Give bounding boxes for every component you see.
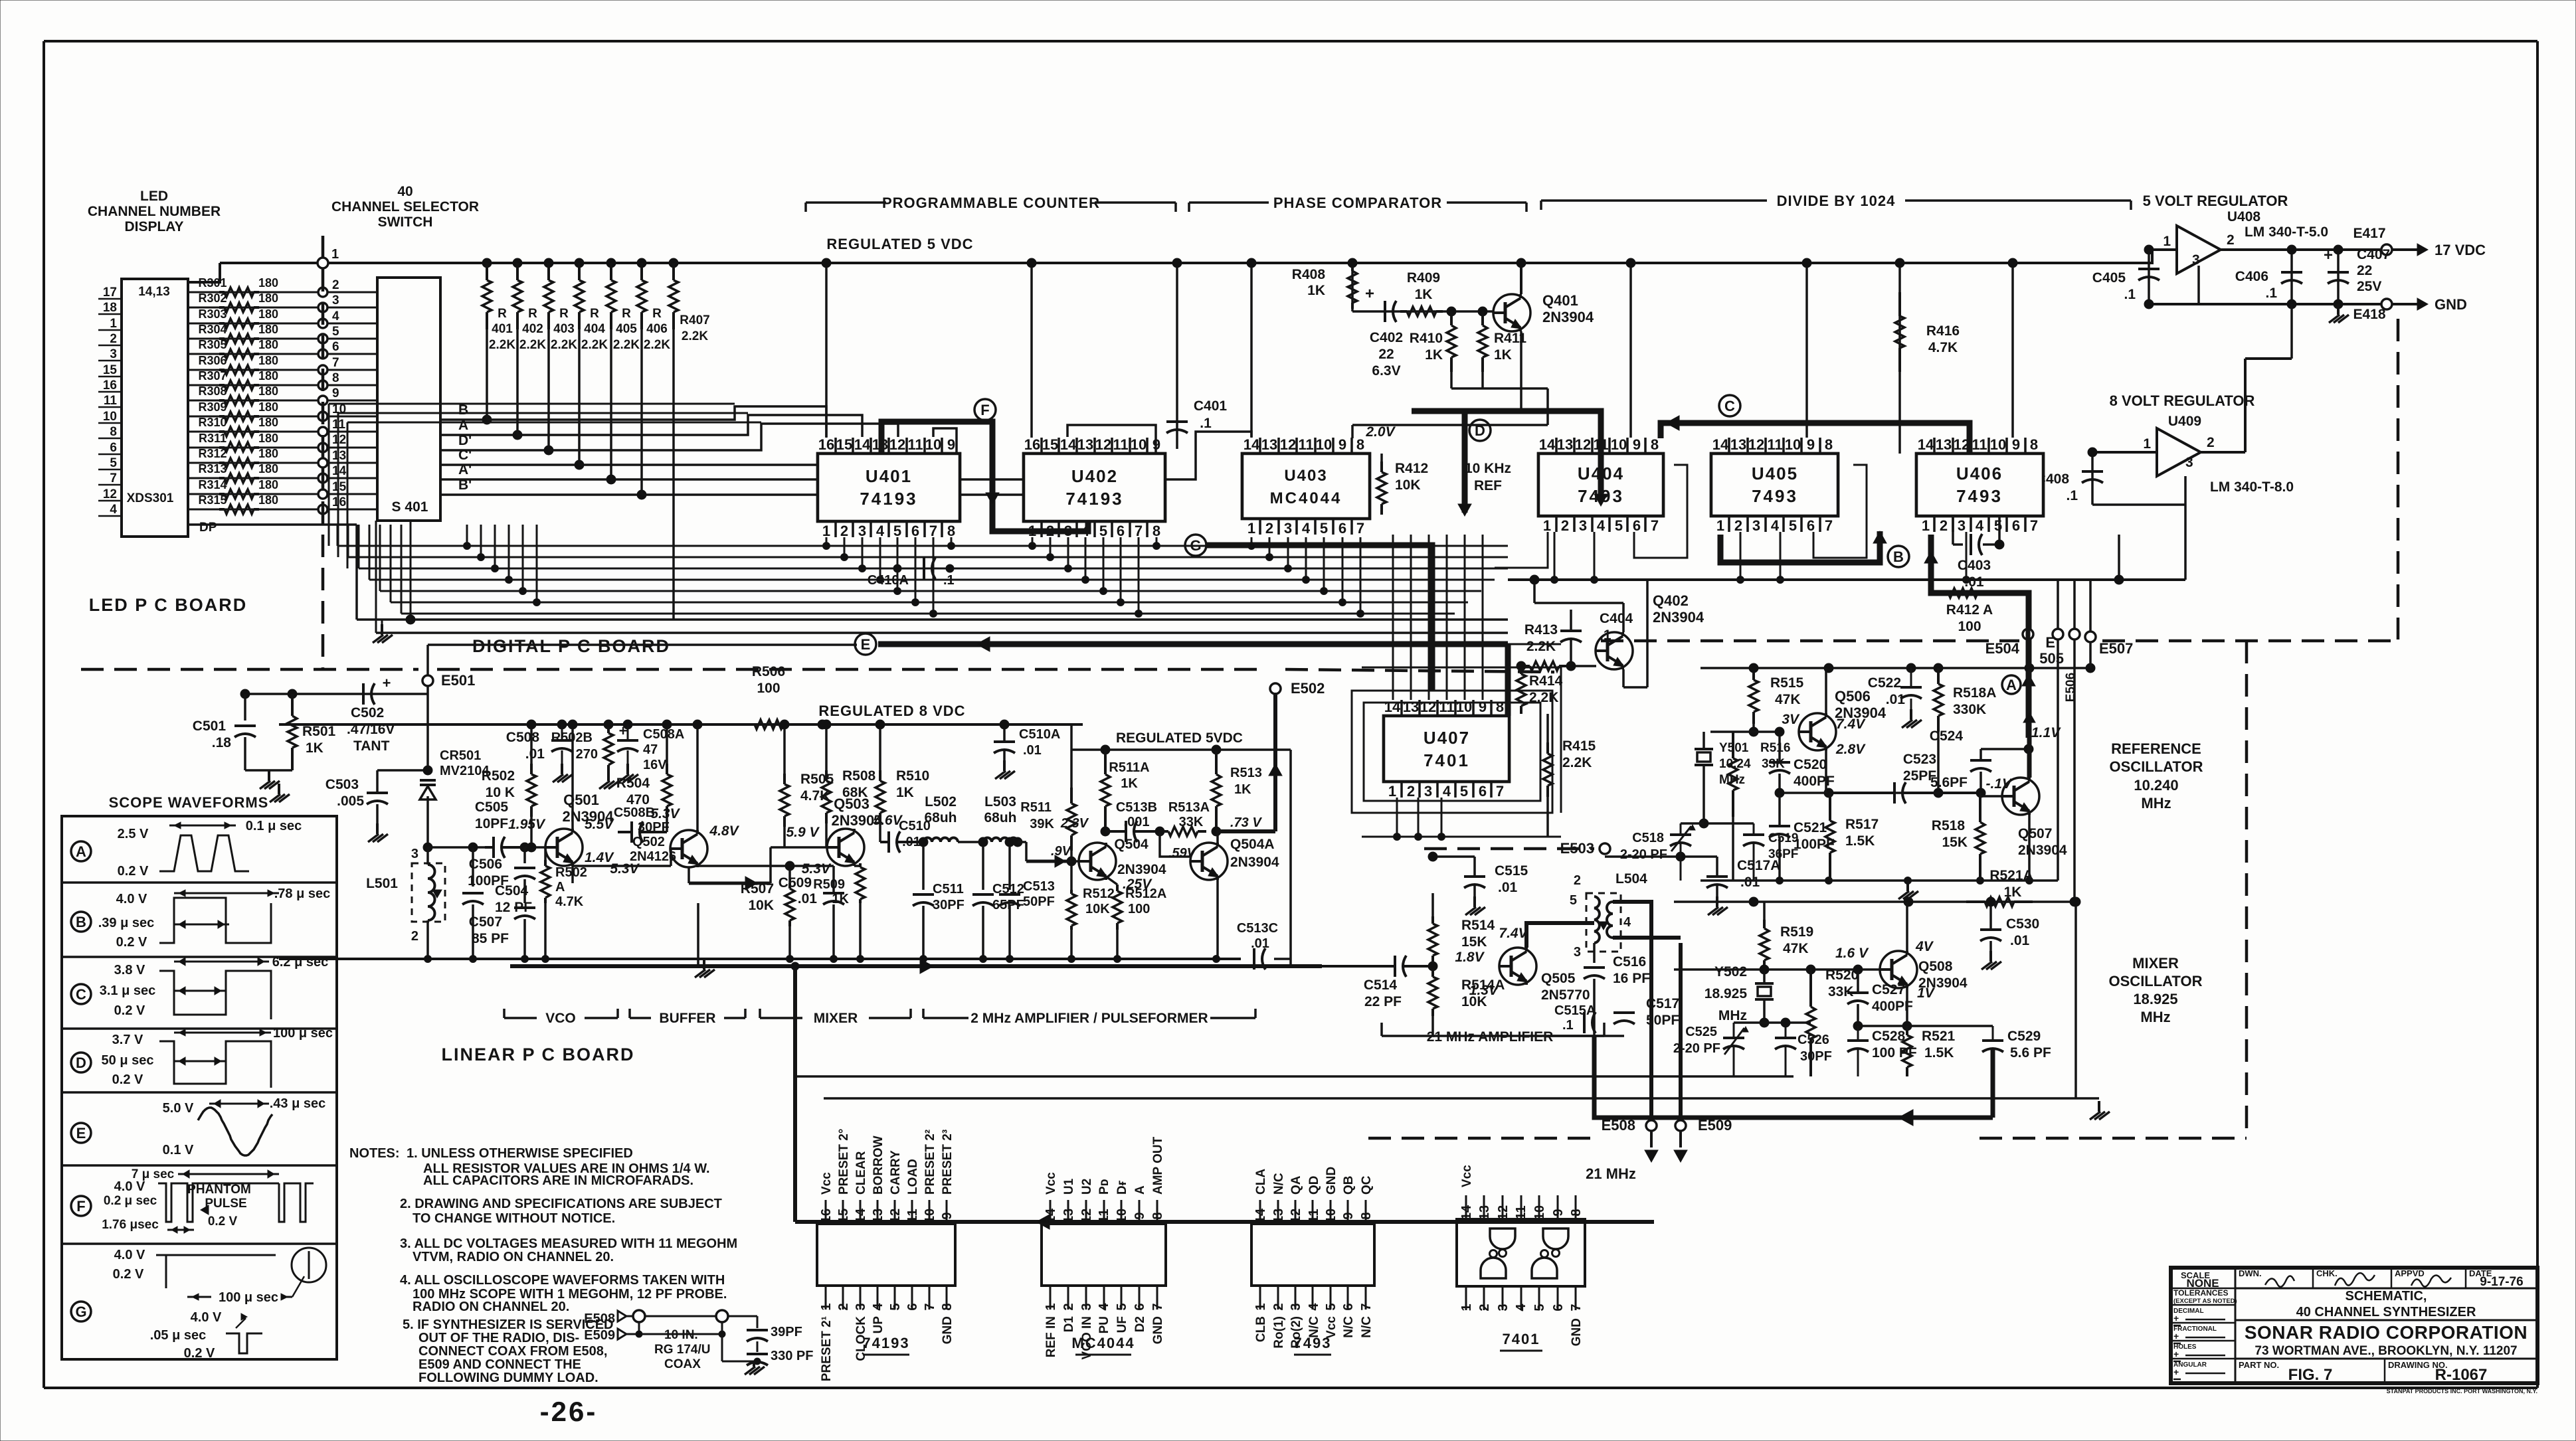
svg-text:REF: REF [1474, 478, 1502, 493]
svg-text:9: 9 [1133, 1212, 1147, 1219]
svg-text:U2: U2 [1080, 1179, 1094, 1195]
svg-text:B': B' [458, 477, 472, 493]
svg-text:.01: .01 [902, 835, 921, 849]
svg-text:E418: E418 [2353, 307, 2385, 322]
svg-text:+: + [2173, 1349, 2179, 1359]
svg-text:C404: C404 [1600, 611, 1633, 626]
svg-text:4V: 4V [1915, 939, 1934, 954]
svg-text:TO CHANGE WITHOUT NOTICE.: TO CHANGE WITHOUT NOTICE. [413, 1211, 615, 1226]
svg-text:8: 8 [940, 1303, 955, 1310]
svg-text:Q502: Q502 [632, 835, 665, 849]
svg-text:180: 180 [258, 462, 278, 475]
svg-text:CHANNEL SELECTOR: CHANNEL SELECTOR [331, 199, 479, 214]
svg-text:+: + [2173, 1331, 2179, 1341]
svg-text:3: 3 [411, 847, 418, 861]
svg-text:MHz: MHz [2140, 1009, 2170, 1025]
svg-text:.01: .01 [798, 891, 818, 906]
svg-text:14: 14 [1253, 1208, 1268, 1223]
svg-text:C402: C402 [1370, 330, 1403, 345]
svg-text:7493: 7493 [1294, 1335, 1332, 1351]
svg-text:10: 10 [925, 436, 941, 453]
svg-text:E: E [2045, 634, 2055, 651]
svg-text:U405: U405 [1752, 464, 1798, 483]
svg-text:TANT: TANT [353, 738, 390, 754]
svg-text:2: 2 [840, 523, 848, 539]
svg-text:QC: QC [1360, 1175, 1374, 1195]
svg-text:R412 A: R412 A [1946, 602, 1993, 618]
svg-text:APPVD: APPVD [2395, 1268, 2425, 1278]
svg-text:Q401: Q401 [1542, 292, 1578, 309]
svg-text:R: R [652, 307, 662, 321]
svg-text:9: 9 [1338, 436, 1346, 453]
svg-text:50PF: 50PF [1023, 894, 1055, 909]
svg-text:16: 16 [103, 379, 117, 392]
svg-text:14: 14 [854, 1208, 868, 1223]
svg-text:C525: C525 [1685, 1025, 1717, 1039]
svg-text:12: 12 [1496, 1205, 1511, 1220]
svg-text:R305: R305 [198, 338, 227, 351]
svg-text:16: 16 [332, 495, 346, 509]
svg-text:R: R [498, 307, 507, 321]
svg-text:U409: U409 [2168, 414, 2201, 429]
svg-text:2N3904: 2N3904 [1230, 855, 1279, 870]
svg-text:10 K: 10 K [486, 785, 515, 800]
svg-text:400PF: 400PF [1872, 999, 1913, 1014]
svg-text:180: 180 [258, 432, 278, 445]
svg-text:505: 505 [2039, 650, 2064, 667]
svg-text:2. DRAWING AND SPECIFICATIONS: 2. DRAWING AND SPECIFICATIONS ARE SUBJEC… [400, 1197, 722, 1211]
svg-text:25V: 25V [2357, 279, 2381, 294]
svg-text:LM 340-T-8.0: LM 340-T-8.0 [2210, 479, 2294, 495]
svg-text:UF: UF [1115, 1316, 1129, 1333]
svg-text:100: 100 [1128, 902, 1150, 916]
svg-text:9: 9 [1551, 1209, 1566, 1216]
svg-text:E507: E507 [2099, 640, 2133, 657]
svg-text:8 VOLT REGULATOR: 8 VOLT REGULATOR [2110, 392, 2255, 409]
svg-text:2-20 PF: 2-20 PF [1673, 1041, 1720, 1056]
svg-text:A: A [76, 843, 86, 860]
svg-text:5: 5 [1532, 1304, 1547, 1311]
svg-text:N/C: N/C [1360, 1316, 1374, 1338]
svg-text:1. UNLESS OTHERWISE SPECIFIED: 1. UNLESS OTHERWISE SPECIFIED [407, 1146, 633, 1161]
svg-text:11: 11 [1097, 1209, 1111, 1223]
svg-text:E508: E508 [584, 1312, 615, 1326]
svg-text:2: 2 [332, 278, 339, 292]
svg-text:2.2K: 2.2K [1562, 755, 1592, 770]
svg-text:R413: R413 [1524, 622, 1558, 637]
svg-text:3: 3 [1496, 1304, 1511, 1311]
svg-text:B: B [76, 914, 86, 930]
svg-text:13: 13 [332, 449, 346, 463]
svg-text:4: 4 [871, 1303, 885, 1311]
svg-text:6: 6 [332, 340, 339, 354]
svg-text:402: 402 [522, 322, 543, 336]
svg-text:Q504: Q504 [1114, 837, 1149, 852]
svg-text:+: + [383, 675, 391, 691]
svg-text:180: 180 [258, 276, 278, 290]
svg-text:C405: C405 [2092, 270, 2126, 286]
svg-text:2: 2 [110, 332, 117, 346]
svg-text:3: 3 [1752, 517, 1760, 534]
svg-text:LM 340-T-5.0: LM 340-T-5.0 [2245, 224, 2328, 240]
svg-text:2.2K: 2.2K [613, 338, 640, 352]
svg-text:R315: R315 [198, 493, 227, 507]
svg-text:5: 5 [1994, 517, 2002, 534]
svg-text:R521A: R521A [1989, 868, 2033, 883]
svg-text:XDS301: XDS301 [127, 491, 174, 505]
svg-text:D: D [76, 1055, 86, 1071]
svg-text:405: 405 [616, 322, 637, 336]
svg-text:2: 2 [1407, 783, 1415, 800]
svg-text:C407: C407 [2357, 247, 2390, 262]
svg-text:R514: R514 [1461, 918, 1495, 933]
svg-text:.005: .005 [337, 794, 364, 809]
svg-text:30PF: 30PF [1800, 1049, 1832, 1064]
svg-text:.001: .001 [1124, 815, 1150, 829]
svg-text:14: 14 [1712, 436, 1729, 453]
svg-text:7493: 7493 [1752, 486, 1798, 506]
svg-text:R518A: R518A [1953, 685, 1996, 701]
svg-text:FIG. 7: FIG. 7 [2288, 1366, 2333, 1384]
svg-text:.9V: .9V [1051, 844, 1072, 859]
svg-text:1K: 1K [832, 892, 849, 906]
svg-text:6: 6 [1479, 783, 1487, 800]
svg-text:Vcc: Vcc [1460, 1165, 1474, 1187]
svg-text:10: 10 [1324, 1209, 1338, 1223]
svg-text:E504: E504 [1985, 640, 2020, 657]
svg-text:.47/16V: .47/16V [347, 722, 395, 737]
svg-text:DIGITAL P C BOARD: DIGITAL P C BOARD [472, 636, 670, 656]
svg-text:4: 4 [1302, 520, 1311, 537]
svg-text:2: 2 [1477, 1304, 1492, 1311]
svg-text:14: 14 [1060, 436, 1077, 453]
svg-text:8: 8 [1569, 1209, 1584, 1216]
svg-text:4: 4 [332, 309, 339, 323]
svg-text:QD: QD [1307, 1176, 1321, 1195]
svg-text:+: + [1365, 285, 1374, 303]
svg-text:1.76 μsec: 1.76 μsec [102, 1218, 159, 1232]
svg-text:22: 22 [1378, 347, 1394, 362]
svg-text:4.7K: 4.7K [1928, 340, 1958, 355]
svg-text:R513A: R513A [1168, 800, 1210, 815]
svg-text:L502: L502 [925, 794, 957, 809]
svg-text:Vcc: Vcc [1044, 1172, 1058, 1195]
svg-text:C501: C501 [193, 719, 227, 734]
svg-text:180: 180 [258, 292, 278, 305]
svg-text:39K: 39K [1030, 817, 1054, 831]
svg-text:R309: R309 [198, 400, 227, 414]
svg-text:R409: R409 [1407, 270, 1440, 286]
svg-text:2N3904: 2N3904 [1653, 609, 1704, 626]
svg-text:GND: GND [1325, 1167, 1338, 1195]
svg-text:5: 5 [888, 1303, 903, 1310]
svg-text:14: 14 [1539, 436, 1556, 453]
svg-text:1: 1 [110, 317, 117, 331]
svg-text:1: 1 [2143, 436, 2151, 452]
svg-text:.43 μ sec: .43 μ sec [270, 1096, 326, 1111]
svg-text:R312: R312 [198, 447, 227, 460]
svg-text:6: 6 [110, 441, 117, 455]
svg-text:SCOPE WAVEFORMS: SCOPE WAVEFORMS [109, 794, 269, 811]
svg-text:SCHEMATIC,: SCHEMATIC, [2346, 1289, 2427, 1304]
svg-text:4.8V: 4.8V [709, 823, 739, 839]
svg-text:3: 3 [1289, 1303, 1303, 1310]
svg-text:2: 2 [2207, 435, 2215, 450]
svg-text:5: 5 [1460, 783, 1468, 800]
svg-text:MIXER: MIXER [2132, 955, 2179, 972]
svg-text:2.2K: 2.2K [682, 329, 708, 343]
svg-text:8: 8 [332, 371, 339, 385]
svg-text:1.3V: 1.3V [1469, 983, 1499, 998]
svg-text:R515: R515 [1770, 675, 1804, 691]
svg-text:R308: R308 [198, 384, 227, 398]
svg-text:3.7 V: 3.7 V [112, 1033, 143, 1047]
svg-text:180: 180 [258, 323, 278, 336]
svg-text:39PF: 39PF [771, 1325, 802, 1339]
svg-text:4: 4 [1307, 1303, 1321, 1311]
svg-text:E509 AND CONNECT THE: E509 AND CONNECT THE [418, 1357, 581, 1372]
svg-text:13: 13 [1730, 436, 1746, 453]
svg-text:+: + [2173, 1367, 2179, 1377]
svg-text:1: 1 [1253, 1303, 1268, 1310]
svg-text:2: 2 [836, 1303, 851, 1310]
svg-text:12: 12 [332, 433, 346, 447]
svg-text:11: 11 [1298, 436, 1313, 453]
svg-text:E417: E417 [2353, 226, 2385, 241]
svg-text:R306: R306 [198, 354, 227, 367]
svg-text:R-1067: R-1067 [2435, 1366, 2488, 1384]
svg-text:15: 15 [103, 363, 118, 377]
svg-text:CLEAR: CLEAR [854, 1151, 868, 1195]
svg-text:14: 14 [1243, 436, 1260, 453]
svg-text:2.2K: 2.2K [644, 338, 670, 352]
svg-text:10K: 10K [1085, 902, 1110, 916]
svg-text:R304: R304 [198, 323, 227, 336]
svg-text:R: R [559, 307, 569, 321]
svg-text:VCO: VCO [545, 1011, 576, 1026]
svg-text:PROGRAMMABLE COUNTER: PROGRAMMABLE COUNTER [882, 195, 1100, 211]
svg-text:8: 8 [1825, 436, 1833, 453]
svg-text:13: 13 [1477, 1205, 1492, 1220]
svg-text:9: 9 [1807, 436, 1815, 453]
svg-text:R408: R408 [1292, 267, 1326, 282]
svg-text:C520: C520 [1794, 757, 1827, 772]
svg-text:13: 13 [871, 1209, 885, 1223]
svg-text:30PF: 30PF [638, 820, 670, 835]
svg-text:+: + [2173, 1313, 2179, 1323]
svg-text:U407: U407 [1424, 728, 1470, 748]
svg-text:.01: .01 [2010, 933, 2030, 948]
svg-text:.1: .1 [2066, 488, 2078, 503]
svg-text:PHANTOM: PHANTOM [187, 1183, 251, 1197]
svg-text:13: 13 [1403, 699, 1419, 715]
svg-text:47: 47 [643, 742, 658, 757]
svg-text:C516: C516 [1613, 954, 1646, 970]
svg-text:2.2K: 2.2K [1526, 639, 1556, 654]
svg-text:330K: 330K [1953, 702, 1986, 717]
svg-text:R518: R518 [1932, 818, 1966, 833]
svg-text:C510A: C510A [1019, 727, 1060, 742]
svg-text:9: 9 [1479, 699, 1487, 715]
svg-text:7493: 7493 [1956, 486, 2003, 506]
svg-text:6: 6 [1117, 523, 1125, 539]
svg-text:9: 9 [332, 386, 339, 400]
svg-text:SONAR RADIO CORPORATION: SONAR RADIO CORPORATION [2245, 1322, 2528, 1343]
svg-text:8: 8 [2030, 436, 2038, 453]
svg-text:R513: R513 [1230, 766, 1262, 780]
svg-text:2.2K: 2.2K [581, 338, 608, 352]
svg-text:.05 μ sec: .05 μ sec [150, 1328, 207, 1343]
svg-text:1K: 1K [1121, 776, 1138, 791]
svg-text:Q507: Q507 [2018, 826, 2052, 841]
svg-text:6: 6 [911, 523, 919, 539]
svg-text:3: 3 [854, 1303, 868, 1310]
svg-text:OUT OF THE RADIO, DIS-: OUT OF THE RADIO, DIS- [418, 1331, 579, 1345]
svg-text:C505: C505 [475, 800, 509, 815]
svg-text:.01: .01 [1886, 692, 1906, 707]
svg-text:0.1 V: 0.1 V [163, 1143, 194, 1157]
svg-text:7: 7 [1359, 1303, 1374, 1310]
svg-text:Q503: Q503 [834, 796, 870, 812]
svg-text:.01: .01 [1498, 880, 1518, 895]
svg-text:R502: R502 [482, 768, 515, 784]
svg-text:+: + [619, 722, 628, 739]
svg-text:Y502: Y502 [1714, 964, 1747, 979]
svg-text:CHANNEL NUMBER: CHANNEL NUMBER [88, 204, 221, 219]
svg-text:.1: .1 [943, 573, 955, 588]
svg-text:C401: C401 [1194, 398, 1228, 414]
svg-text:5: 5 [1099, 523, 1107, 539]
svg-text:7: 7 [923, 1303, 937, 1310]
svg-text:15: 15 [332, 480, 347, 494]
svg-text:6: 6 [905, 1303, 920, 1310]
svg-text:11: 11 [104, 394, 118, 408]
svg-text:21 MHz: 21 MHz [1586, 1165, 1636, 1182]
svg-text:3: 3 [110, 347, 117, 361]
svg-text:ALL CAPACITORS ARE IN MICROFAR: ALL CAPACITORS ARE IN MICROFARADS. [423, 1173, 693, 1188]
svg-text:7: 7 [1356, 520, 1364, 537]
svg-text:3: 3 [1574, 945, 1581, 960]
svg-text:CLA: CLA [1254, 1169, 1268, 1195]
svg-text:8: 8 [1152, 523, 1160, 539]
svg-text:4: 4 [1443, 783, 1451, 800]
svg-text:A: A [555, 880, 565, 894]
svg-text:R501: R501 [302, 724, 336, 739]
svg-text:5.3V: 5.3V [802, 861, 832, 877]
svg-text:2: 2 [1061, 1303, 1076, 1310]
svg-text:180: 180 [258, 354, 278, 367]
svg-text:8: 8 [1651, 436, 1659, 453]
svg-text:12: 12 [889, 436, 905, 453]
svg-text:R: R [528, 307, 537, 321]
svg-text:.1: .1 [1200, 416, 1212, 431]
svg-text:6: 6 [1633, 517, 1641, 534]
svg-text:7: 7 [929, 523, 937, 539]
svg-text:5: 5 [1115, 1303, 1129, 1310]
svg-text:CLB: CLB [1254, 1316, 1268, 1342]
svg-text:10PF: 10PF [475, 816, 508, 831]
svg-text:1.8V: 1.8V [1455, 950, 1485, 965]
svg-text:4.0 V: 4.0 V [116, 892, 147, 906]
svg-text:5.6PF: 5.6PF [1930, 775, 1968, 790]
svg-text:180: 180 [258, 307, 278, 321]
svg-text:3: 3 [858, 523, 866, 539]
svg-text:7.4V: 7.4V [1499, 926, 1528, 941]
svg-text:FOLLOWING DUMMY LOAD.: FOLLOWING DUMMY LOAD. [418, 1371, 598, 1385]
svg-text:47K: 47K [1783, 941, 1809, 956]
svg-text:2N3904: 2N3904 [1117, 862, 1166, 877]
svg-text:9: 9 [1341, 1212, 1356, 1219]
svg-text:U403: U403 [1284, 467, 1327, 485]
svg-text:E501: E501 [441, 672, 475, 689]
svg-text:18.925: 18.925 [2133, 991, 2177, 1007]
svg-text:5.3V: 5.3V [650, 806, 680, 821]
svg-text:CHK.: CHK. [2316, 1268, 2338, 1278]
svg-text:CARRY: CARRY [889, 1150, 903, 1195]
svg-text:7.4V: 7.4V [1836, 717, 1866, 732]
svg-text:D: D [1475, 422, 1485, 439]
svg-text:404: 404 [584, 322, 605, 336]
svg-text:LINEAR P C BOARD: LINEAR P C BOARD [441, 1045, 634, 1064]
svg-text:PRESET 2³: PRESET 2³ [941, 1130, 955, 1195]
svg-text:C508A: C508A [643, 727, 684, 742]
svg-text:100: 100 [757, 681, 780, 696]
svg-text:1V: 1V [1917, 985, 1936, 1001]
svg-text:0.2 V: 0.2 V [118, 864, 149, 879]
svg-text:R301: R301 [198, 276, 227, 290]
svg-text:1: 1 [331, 247, 339, 262]
svg-text:10: 10 [1115, 1209, 1129, 1223]
svg-text:2: 2 [411, 929, 418, 944]
svg-text:PRESET 2°: PRESET 2° [837, 1129, 851, 1195]
svg-text:F: F [980, 402, 989, 418]
svg-text:33K: 33K [1762, 757, 1785, 771]
svg-text:1K: 1K [2004, 885, 2022, 900]
svg-text:10 KHz: 10 KHz [1465, 461, 1511, 476]
svg-text:0.1 μ sec: 0.1 μ sec [246, 819, 302, 833]
svg-text:C523: C523 [1903, 752, 1936, 767]
svg-text:3.1 μ sec: 3.1 μ sec [100, 983, 156, 998]
svg-text:Q501: Q501 [563, 792, 599, 808]
svg-text:PART NO.: PART NO. [2239, 1360, 2279, 1370]
svg-text:3.8 V: 3.8 V [114, 963, 145, 977]
svg-text:GND: GND [1151, 1316, 1165, 1344]
svg-text:3: 3 [1424, 783, 1432, 800]
svg-text:.59V: .59V [1168, 846, 1197, 861]
svg-text:3: 3 [1284, 520, 1292, 537]
svg-text:QB: QB [1342, 1176, 1356, 1195]
svg-text:PRESET 2²: PRESET 2² [923, 1130, 937, 1195]
svg-text:R313: R313 [198, 462, 227, 475]
svg-text:10: 10 [1785, 436, 1801, 453]
svg-text:1K: 1K [1234, 782, 1251, 797]
svg-text:DP: DP [199, 521, 217, 535]
svg-text:5: 5 [1570, 893, 1577, 908]
svg-text:1K: 1K [306, 740, 323, 756]
svg-text:1: 1 [819, 1303, 834, 1310]
svg-text:33K: 33K [1179, 815, 1204, 829]
svg-text:5: 5 [1615, 517, 1623, 534]
svg-text:(EXCEPT AS NOTED): (EXCEPT AS NOTED) [2173, 1298, 2237, 1305]
svg-text:7: 7 [1150, 1303, 1165, 1310]
svg-text:7: 7 [110, 471, 117, 485]
svg-text:5: 5 [1324, 1303, 1338, 1310]
svg-text:R412: R412 [1395, 461, 1428, 476]
svg-text:R520: R520 [1825, 968, 1859, 983]
svg-text:U406: U406 [1956, 464, 2003, 483]
svg-text:R407: R407 [680, 313, 709, 327]
svg-text:180: 180 [258, 493, 278, 507]
